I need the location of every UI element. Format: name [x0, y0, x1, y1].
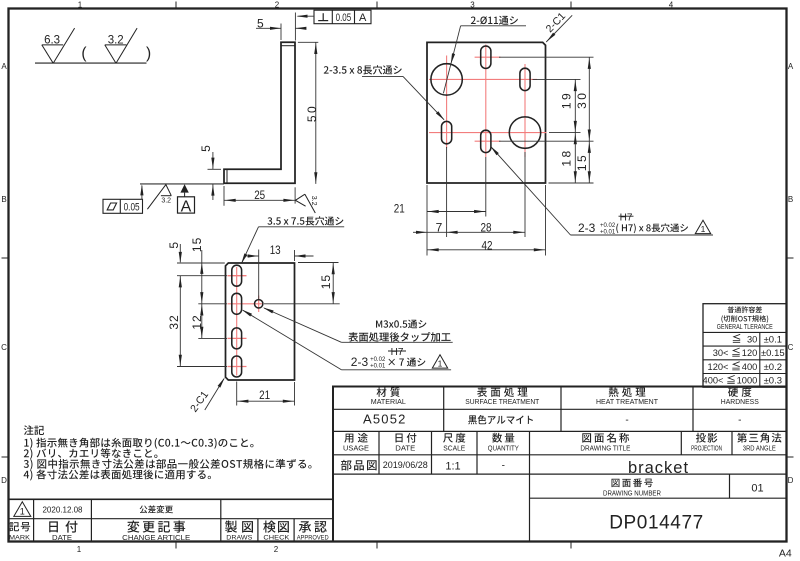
svg-text:0.05: 0.05	[124, 201, 140, 213]
left view centerline slot3	[228, 337, 247, 339]
revision mark triangle 1	[14, 502, 31, 517]
svg-text:19: 19	[560, 91, 574, 109]
label 2-dia11 leader	[443, 26, 526, 94]
svg-text:APPROVED: APPROVED	[297, 535, 329, 542]
tolerance table header3	[717, 324, 773, 331]
tolerance row 2	[713, 348, 785, 360]
zone ticks right	[787, 258, 794, 457]
label 2-3.5x8 slot	[324, 65, 402, 74]
svg-text:0.05: 0.05	[336, 12, 352, 24]
field quantity header	[488, 433, 519, 452]
tolerance row 3	[708, 361, 782, 373]
svg-text:4: 4	[669, 0, 674, 9]
centerline col1	[446, 56, 448, 149]
svg-text:5: 5	[257, 17, 264, 31]
svg-text:400<: 400<	[703, 376, 724, 386]
rev header check	[263, 521, 290, 542]
value revision 01	[751, 483, 763, 495]
field title header	[580, 433, 630, 452]
title block column lines rows1-2	[444, 387, 693, 432]
svg-text:1: 1	[438, 359, 443, 369]
datum base line	[140, 183, 224, 185]
svg-text:2-3: 2-3	[351, 355, 369, 369]
svg-text:5: 5	[199, 145, 213, 152]
centerline slot top	[475, 56, 501, 58]
svg-text:A5052: A5052	[363, 412, 407, 427]
svg-text:42: 42	[482, 238, 493, 252]
slot hole bottom-middle	[481, 130, 491, 152]
roughness note underline	[35, 62, 147, 64]
svg-text:-: -	[502, 461, 505, 472]
value drawing title bracket	[628, 459, 689, 477]
label M3 tap line2	[348, 332, 450, 342]
field drawing number header	[603, 478, 661, 497]
dimension 15 (left view)	[319, 263, 335, 304]
value scale	[445, 461, 460, 473]
svg-text:400: 400	[742, 362, 758, 372]
svg-text:A: A	[181, 199, 192, 216]
svg-text:+0.02: +0.02	[370, 357, 386, 363]
svg-text:bracket: bracket	[628, 459, 689, 477]
title block column lines rows3-4	[379, 431, 732, 541]
revision date value	[42, 505, 83, 514]
note 1	[24, 438, 253, 449]
dimension 21 (left view)	[237, 388, 295, 403]
extension lines below plate	[427, 147, 546, 256]
svg-text:18: 18	[560, 148, 574, 166]
zone letters left	[1, 62, 7, 485]
svg-text:C: C	[1, 343, 7, 352]
zone letters right	[788, 62, 794, 485]
dimension 19	[560, 79, 577, 132]
svg-text:13: 13	[270, 243, 281, 257]
svg-text:USAGE: USAGE	[343, 443, 369, 452]
flatness tolerance frame	[103, 199, 143, 213]
centerline row3	[429, 132, 547, 134]
dimension 21 (left view) extensions	[237, 382, 295, 406]
dimension 21 (front)	[394, 202, 486, 216]
svg-text:120: 120	[742, 348, 758, 358]
dimension 30	[575, 57, 591, 141]
roughness 3.2 at dim 25	[295, 194, 316, 213]
svg-text:1: 1	[78, 0, 83, 9]
roughness symbol 6.3	[42, 28, 75, 63]
slot hole top-middle	[481, 46, 491, 68]
side view L-shape outline	[224, 42, 295, 183]
svg-text:(: (	[81, 45, 87, 62]
field heat header	[596, 387, 658, 406]
svg-text:A: A	[1, 62, 7, 71]
svg-text:2-3: 2-3	[578, 221, 596, 235]
rev header mark	[9, 522, 31, 542]
dimension 50	[305, 42, 319, 184]
svg-text:GENERAL TLERANCE: GENERAL TLERANCE	[717, 324, 773, 331]
svg-text:32: 32	[167, 314, 181, 329]
title block outer box	[333, 387, 787, 542]
svg-text:DP014477: DP014477	[609, 513, 704, 534]
svg-text:±0.15: ±0.15	[761, 348, 785, 359]
revision triangle 1 (front)	[695, 220, 710, 234]
dimension 5 (top width) extension lines	[281, 13, 295, 41]
label 2-3.5x8 slot leader	[362, 76, 445, 120]
label H7 strike (left view)	[388, 347, 406, 358]
dimension 15-12 line	[201, 250, 203, 338]
value part type	[341, 460, 377, 471]
svg-text:+0.01: +0.01	[370, 364, 386, 370]
dimension 15 (front)	[575, 141, 591, 183]
flatness frame leader	[140, 184, 143, 199]
svg-text:120<: 120<	[708, 362, 729, 372]
svg-text:CHANGE ARTICLE: CHANGE ARTICLE	[122, 535, 190, 542]
dimension 15 (left view) extensions	[264, 263, 340, 304]
note 3	[24, 459, 312, 470]
svg-text:1: 1	[701, 224, 706, 234]
svg-text:A: A	[788, 62, 794, 71]
label 2-dia11	[471, 16, 518, 25]
field scale header	[443, 433, 465, 452]
revision triangle 1 (left view)	[432, 355, 447, 369]
title block row lines	[333, 409, 787, 498]
svg-text:2019/06/28: 2019/06/28	[383, 460, 428, 470]
svg-text:CHECK: CHECK	[263, 535, 290, 542]
rev header date	[49, 521, 77, 542]
note 4	[24, 469, 211, 480]
datum feature triangle A	[180, 184, 188, 197]
label M3 tap leader	[263, 308, 453, 343]
label 3.5x7.5 slot	[268, 216, 344, 225]
svg-text:6.3: 6.3	[44, 35, 60, 47]
perpendicularity tolerance frame	[314, 10, 371, 24]
tolerance table box	[703, 304, 787, 388]
zone ticks bottom	[176, 542, 571, 549]
svg-text:30<: 30<	[713, 348, 729, 358]
chamfer label 2-C1 (left view)	[188, 389, 211, 415]
svg-text:C: C	[788, 343, 794, 352]
rev header approved	[297, 521, 329, 542]
extension line row1 right	[499, 56, 594, 58]
dimension 13	[247, 243, 314, 258]
dimension 5 (top width)	[256, 17, 306, 31]
label 2-3 H7 x8	[578, 221, 688, 236]
svg-text:D: D	[788, 476, 794, 485]
left view centerline slot4	[228, 366, 247, 368]
roughness parens	[81, 45, 151, 62]
perpendicularity frame leader	[297, 15, 315, 18]
svg-text:28: 28	[481, 221, 492, 235]
dimension 5 (leg thickness) extension	[208, 168, 222, 170]
left view left extensions	[177, 263, 227, 367]
left view slot 3	[232, 328, 242, 349]
dimension 42	[427, 238, 546, 252]
svg-text:H7: H7	[620, 212, 633, 223]
svg-text:PROJECTION: PROJECTION	[691, 443, 722, 452]
svg-text:1000: 1000	[737, 376, 758, 386]
roughness symbol 3.2	[105, 28, 137, 63]
svg-text:12: 12	[190, 314, 204, 329]
label M3 tap line1	[376, 320, 426, 329]
label 3.5x7.5 slot leader	[241, 227, 344, 264]
dimension 18	[560, 133, 577, 183]
rev header draws	[225, 521, 253, 542]
value date	[383, 460, 428, 470]
svg-text:QUANTITY: QUANTITY	[488, 443, 519, 452]
field projection header	[691, 433, 722, 452]
note 2	[24, 448, 158, 459]
left view slot 1	[232, 265, 242, 286]
left view plate outline	[226, 263, 295, 380]
field 3rd angle header	[737, 433, 781, 452]
label 2-3 H7 x8 leader	[490, 146, 713, 235]
sheet size label A4	[779, 548, 792, 560]
svg-text:50: 50	[305, 104, 319, 122]
svg-text:1:1: 1:1	[445, 461, 460, 473]
side view chamfer lines	[227, 46, 295, 184]
dimension 50 extension line	[298, 41, 318, 43]
svg-text:15: 15	[575, 153, 589, 171]
field surface header	[465, 387, 539, 406]
dimension 15 (left column)	[190, 237, 204, 303]
svg-text:DATE: DATE	[395, 443, 415, 452]
svg-text:B: B	[1, 195, 6, 204]
svg-text:15: 15	[319, 274, 333, 289]
svg-text:3: 3	[470, 0, 475, 9]
centerline col3	[524, 64, 526, 157]
revision change value	[140, 505, 173, 513]
svg-text:DATE: DATE	[52, 535, 72, 542]
dimension 7 and 28	[413, 221, 525, 235]
svg-text:21: 21	[394, 202, 405, 216]
svg-text:+0.02: +0.02	[600, 223, 616, 229]
chamfer label 2-C1 leader	[546, 15, 572, 42]
svg-text:25: 25	[254, 188, 265, 202]
left view centerline slot2 and circle	[228, 303, 264, 305]
svg-text:DRAWING NUMBER: DRAWING NUMBER	[603, 490, 661, 497]
field usage header	[343, 433, 369, 452]
zone ticks left	[2, 258, 9, 457]
svg-text:HARDNESS: HARDNESS	[721, 397, 759, 406]
svg-text:30: 30	[747, 334, 757, 344]
centerline row2	[429, 78, 537, 80]
svg-text:1: 1	[20, 507, 25, 517]
svg-text:3.2: 3.2	[161, 197, 171, 204]
zone numbers bottom	[77, 545, 279, 554]
svg-text:H7: H7	[391, 347, 404, 358]
dimension 13 extensions	[259, 250, 295, 300]
value drawing number	[609, 513, 704, 534]
svg-text:D: D	[1, 476, 7, 485]
extension line row2 right	[533, 78, 581, 80]
svg-text:3.2: 3.2	[310, 196, 317, 206]
svg-text:A: A	[359, 12, 367, 24]
zone ticks top	[176, 2, 571, 9]
extension line row4 right	[499, 140, 594, 142]
svg-text:DRAWING TITLE: DRAWING TITLE	[580, 443, 630, 452]
rev header change	[122, 521, 190, 542]
svg-text:B: B	[788, 195, 793, 204]
svg-text:MARK: MARK	[9, 535, 31, 542]
value material	[363, 412, 407, 427]
centerline slot bottom	[475, 140, 501, 142]
svg-text:21: 21	[259, 388, 270, 402]
value quantity	[502, 461, 505, 472]
roughness 3.2 on base line	[147, 185, 171, 210]
left view centerline slot1	[228, 275, 247, 277]
dimension 32	[167, 276, 182, 367]
svg-text:±0.1: ±0.1	[764, 334, 782, 345]
extension line bottom-right	[549, 182, 594, 184]
svg-text:): )	[146, 45, 151, 62]
label 2-3 H7 x7 leader	[242, 310, 451, 370]
tolerance row 1	[733, 334, 783, 346]
slot hole left	[442, 121, 452, 143]
svg-text:5: 5	[167, 242, 181, 249]
svg-text:2020.12.08: 2020.12.08	[42, 505, 83, 514]
hole circle top-left	[431, 64, 462, 95]
svg-text:SURFACE TREATMENT: SURFACE TREATMENT	[465, 397, 539, 406]
slot hole right	[520, 68, 530, 90]
svg-text:A4: A4	[779, 548, 792, 560]
chamfer label 2-C1	[544, 10, 569, 35]
svg-text:-: -	[738, 415, 741, 426]
dimension 12	[190, 305, 204, 338]
svg-text:3.2: 3.2	[108, 35, 124, 47]
dimension 25	[224, 188, 295, 202]
label 2-3 H7 x7	[351, 355, 426, 369]
svg-text:-: -	[625, 415, 628, 426]
svg-text:HEAT TREATMENT: HEAT TREATMENT	[596, 397, 658, 406]
tapped hole M3	[255, 300, 263, 308]
svg-text:±0.2: ±0.2	[764, 362, 782, 373]
svg-text:DRAWS: DRAWS	[226, 535, 253, 542]
centerline col2	[485, 45, 487, 158]
chamfer label 2-C1 (left view) leader	[205, 377, 225, 410]
left view centerline column	[236, 267, 238, 376]
extension line row3 right	[549, 132, 581, 134]
notes title	[24, 425, 44, 435]
value heat	[625, 415, 628, 426]
svg-text:±0.3: ±0.3	[764, 376, 782, 387]
svg-text:30: 30	[575, 91, 589, 109]
value hardness	[738, 415, 741, 426]
svg-text:1: 1	[77, 545, 82, 554]
front view plate outline	[427, 42, 546, 183]
svg-text:7: 7	[436, 221, 443, 235]
value surface	[468, 415, 533, 424]
svg-text:MATERIAL: MATERIAL	[371, 397, 406, 406]
dimension 5 (leg thickness)	[199, 145, 215, 200]
hole circle bottom-right	[509, 117, 540, 148]
label H7 strike (front)	[619, 212, 634, 223]
zone numbers top	[78, 0, 674, 9]
dimension 25 extension lines	[224, 186, 295, 206]
revision table box	[9, 499, 334, 541]
tolerance row 4	[703, 375, 782, 387]
field hardness header	[721, 387, 759, 406]
svg-text:2: 2	[274, 545, 279, 554]
field material header	[371, 387, 406, 406]
tolerance table header2	[721, 315, 768, 323]
svg-text:SCALE: SCALE	[443, 443, 465, 452]
left view centerline circle vertical	[258, 296, 260, 313]
svg-text:+0.01: +0.01	[600, 229, 616, 235]
svg-text:3RD ANGLE: 3RD ANGLE	[743, 443, 776, 452]
svg-text:01: 01	[751, 483, 763, 495]
svg-text:15: 15	[190, 237, 204, 252]
svg-text:2: 2	[275, 0, 280, 9]
datum label box A	[178, 197, 195, 216]
left view slot 4	[232, 356, 242, 377]
field date header	[395, 433, 416, 452]
left view slot 2	[232, 293, 242, 314]
tolerance table header1	[728, 306, 762, 313]
dimension 5 (left view)	[167, 242, 182, 263]
